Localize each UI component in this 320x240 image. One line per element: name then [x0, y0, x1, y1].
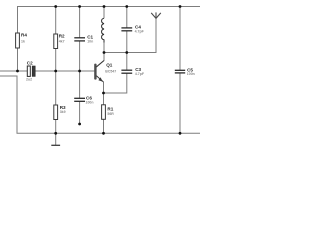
capacitor C5: [175, 70, 185, 73]
wire ground stub: [55, 133, 57, 145]
capacitor C1: [74, 38, 85, 41]
wire C6 bottom lead: [79, 101, 81, 124]
capacitor C6: [74, 98, 85, 101]
svg-text:Q1: Q1: [106, 62, 113, 67]
wire bottom rail: [17, 76, 200, 133]
node emitter C3: [102, 92, 105, 95]
resistor R1: [102, 105, 115, 120]
svg-text:100n: 100n: [187, 72, 195, 76]
wire collector node to antenna: [104, 18, 156, 53]
svg-text:3k9: 3k9: [60, 110, 66, 114]
node base R2 R3: [54, 70, 57, 73]
wire R4 bottom lead: [17, 48, 19, 71]
svg-text:100n: 100n: [86, 101, 94, 105]
wire C3 top lead: [126, 53, 128, 71]
wire top rail: [18, 7, 201, 34]
capacitor C2 (polarized, horizontal): [26, 61, 35, 82]
resistor R3: [54, 105, 66, 120]
svg-text:R2: R2: [59, 34, 65, 39]
antenna: [151, 12, 161, 18]
wire R2 bottom to R3 top: [55, 49, 57, 106]
svg-text:2u2: 2u2: [26, 77, 32, 81]
svg-text:4.7pF: 4.7pF: [135, 72, 145, 76]
resistor R2: [54, 34, 65, 49]
svg-text:4.7pF: 4.7pF: [135, 29, 145, 33]
ground: [51, 144, 60, 146]
svg-text:C2: C2: [27, 61, 33, 66]
node top C1: [78, 5, 81, 8]
node base C1 C6: [78, 70, 81, 73]
wire C5 bottom lead: [179, 73, 181, 133]
wire C4 top lead: [126, 7, 128, 28]
node tank C4 C3: [125, 51, 128, 54]
wire input lower: [0, 75, 18, 77]
node C6 end: [78, 123, 81, 126]
wire C1 top lead: [79, 7, 81, 38]
wire collector lead: [96, 53, 104, 67]
wire R2 top lead: [55, 7, 57, 35]
node top R2: [54, 5, 57, 8]
node bottom C5: [179, 132, 182, 135]
svg-text:1k: 1k: [21, 40, 25, 44]
node top L1: [103, 5, 106, 8]
wire C3 bottom to emitter: [104, 73, 127, 93]
svg-text:10n: 10n: [87, 40, 93, 44]
wire input upper: [0, 70, 27, 72]
resistor R4: [16, 33, 28, 48]
wire C1 bottom to C6 top: [79, 41, 81, 98]
wire L1 bottom lead: [103, 43, 105, 53]
svg-text:R4: R4: [21, 33, 27, 38]
node collector: [103, 51, 106, 54]
node input R4: [16, 70, 19, 73]
wire C4 bottom lead: [126, 31, 128, 53]
wire L1 top lead: [103, 7, 105, 19]
node top C5: [179, 5, 182, 8]
inductor L1: [102, 18, 104, 42]
svg-text:R1: R1: [107, 106, 113, 111]
wire R3 bottom lead: [55, 120, 57, 134]
wire base wire: [35, 70, 94, 72]
node bottom R3 gnd: [54, 132, 57, 135]
capacitor C3: [121, 70, 132, 73]
node top C4: [125, 5, 128, 8]
wire emitter lead down: [103, 82, 105, 105]
wire C5 top lead: [179, 7, 181, 71]
capacitor C4: [121, 28, 132, 31]
transistor Q1: [94, 61, 116, 83]
node bottom R1: [102, 132, 105, 135]
wire R1 bottom lead: [103, 119, 105, 133]
svg-text:4k7: 4k7: [59, 39, 65, 43]
svg-text:56R: 56R: [107, 112, 114, 116]
svg-text:BC547: BC547: [105, 69, 116, 73]
